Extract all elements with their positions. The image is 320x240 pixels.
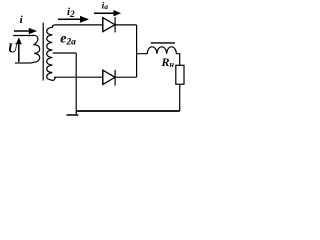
svg-text:U: U [8, 41, 19, 56]
svg-text:i2: i2 [67, 6, 75, 19]
svg-text:ia: ia [102, 1, 109, 11]
